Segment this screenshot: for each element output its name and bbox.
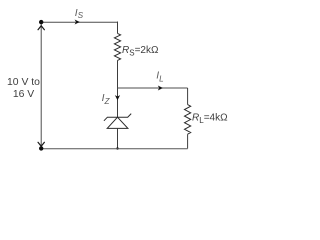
wire: top horizontal [41,21,117,23]
svg-text:RS=2kΩ: RS=2kΩ [122,45,159,57]
arrow: source terminal arrow pointing down [38,142,44,146]
svg-text:IS: IS [75,8,84,20]
wire: R_S top lead [117,22,119,34]
arrow: I_L current arrow on middle wire [158,86,163,91]
arrow: source terminal arrow pointing up [38,26,44,30]
wire: zener anode lead to bottom wire [117,128,119,148]
svg-text:RL=4kΩ: RL=4kΩ [192,113,228,125]
resistor R_L zigzag [185,105,191,135]
svg-text:IZ: IZ [102,93,111,106]
node: bottom-left junction dot [39,146,43,150]
wire: R_S bottom lead down to zener [117,60,119,117]
wire: middle horizontal to load branch [118,87,188,89]
wire: bottom horizontal return [41,148,187,150]
svg-text:IL: IL [156,71,163,84]
wire: R_L bottom lead [187,134,189,148]
svg-text:16 V: 16 V [13,89,34,100]
arrow: I_S current arrow on top wire [75,20,80,25]
node: zener-to-bottom-wire junction dot [116,147,118,149]
resistor R_S zigzag [114,33,120,60]
arrow: I_Z current arrow pointing down into zener [115,95,120,100]
zener diode: cathode bar with bent tips [104,114,131,121]
svg-text:10 V to: 10 V to [7,77,40,88]
node: top-left junction dot [39,20,43,24]
wire: right vertical load branch top lead [187,88,189,105]
wire: left vertical source branch [40,22,42,148]
zener diode: anode triangle [107,117,128,128]
